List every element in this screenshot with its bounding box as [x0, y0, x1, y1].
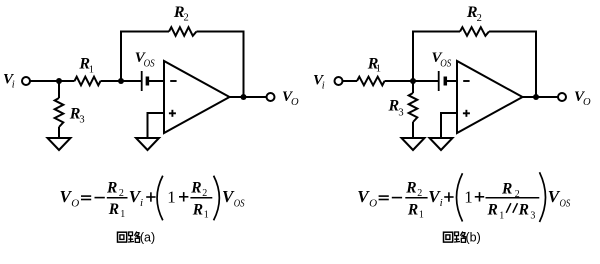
wire battery to op-amp minus (b)	[446, 80, 457, 82]
ground plus input (a)	[136, 138, 159, 150]
output terminal (b)	[558, 93, 566, 101]
formula b fraction R2 over R1 parallel R3	[486, 180, 540, 221]
feedback wire down to output (b)	[535, 32, 537, 98]
svg-text:1: 1	[204, 210, 209, 221]
wire node B down to R3 (b)	[412, 81, 414, 93]
svg-text:1: 1	[499, 210, 504, 221]
formula a V_O	[60, 187, 80, 209]
label R1 (b)	[367, 56, 381, 75]
resistor R1 (a)	[75, 77, 101, 86]
formula b V_i	[428, 187, 442, 209]
label R3 (b)	[388, 98, 404, 119]
output wire (b)	[523, 96, 559, 98]
battery VOS long plate (a)	[141, 71, 143, 91]
label R1 (a)	[78, 55, 94, 75]
label VOS (b)	[432, 50, 452, 70]
resistor R2 (b)	[460, 27, 489, 36]
formula b fraction R2 over R1	[405, 180, 427, 221]
svg-text:OS: OS	[560, 198, 571, 210]
output terminal (a)	[267, 93, 275, 101]
resistor R3 (b)	[409, 93, 418, 122]
svg-text:1: 1	[376, 64, 381, 75]
minus sign (b)	[463, 80, 469, 82]
node B (b)	[410, 78, 416, 84]
wire plus input (a)	[148, 113, 165, 138]
svg-text:2: 2	[515, 189, 520, 200]
feedback top wire left (b)	[412, 31, 460, 33]
label R2 (b)	[466, 4, 482, 24]
svg-text:(a): (a)	[140, 231, 155, 245]
formula a V_i	[129, 187, 143, 209]
label R2 (a)	[173, 4, 189, 24]
label Vo (b)	[574, 89, 591, 108]
formula a fraction R2 over R1 second	[190, 180, 212, 221]
svg-text:R: R	[405, 180, 416, 197]
svg-text:O: O	[291, 97, 299, 108]
formula b plus	[444, 192, 453, 201]
node A (a)	[56, 78, 62, 84]
minus sign (a)	[170, 80, 176, 82]
resistor R3 (a)	[55, 98, 64, 127]
formula a open paren	[157, 176, 163, 221]
feedback top wire right (a)	[197, 31, 245, 33]
label Vo (a)	[282, 89, 299, 108]
plus sign (b)	[463, 110, 470, 117]
svg-text:2: 2	[202, 188, 207, 199]
formula a plus inside paren	[179, 192, 188, 201]
svg-text:(b): (b)	[466, 231, 481, 245]
wire node B to battery (b)	[413, 80, 438, 82]
svg-text:OS: OS	[144, 59, 156, 70]
formula a equals	[81, 196, 91, 199]
svg-text:3: 3	[79, 115, 84, 126]
svg-text:1: 1	[89, 65, 94, 76]
svg-text:3: 3	[530, 210, 535, 221]
svg-text:3: 3	[398, 107, 403, 118]
output node (a)	[241, 94, 247, 100]
caption kanji ro (b)	[454, 232, 466, 243]
svg-text:R: R	[192, 202, 203, 219]
formula a V_OS	[222, 187, 245, 210]
plus sign (a)	[169, 110, 176, 117]
wire plus input (b)	[441, 113, 457, 138]
wire battery to op-amp minus (a)	[149, 80, 164, 82]
resistor R2 (a)	[169, 27, 197, 36]
feedback wire down to output (a)	[243, 32, 245, 98]
battery VOS short plate (b)	[444, 77, 448, 86]
ground R3 (b)	[402, 138, 425, 150]
resistor R1 (b)	[357, 77, 385, 86]
svg-text:1: 1	[464, 188, 473, 207]
svg-text:O: O	[369, 197, 377, 209]
caption kanji ro (a)	[128, 232, 140, 243]
formula b V_O	[357, 187, 377, 209]
svg-text:R: R	[518, 202, 529, 219]
label VOS (a)	[135, 50, 155, 70]
svg-text:O: O	[71, 197, 79, 209]
svg-text:1: 1	[167, 188, 176, 207]
node B (a)	[118, 78, 124, 84]
formula a fraction R2 over R1	[106, 180, 128, 221]
svg-text:R: R	[108, 201, 119, 218]
wire node B up (b)	[412, 32, 414, 82]
svg-text:R: R	[407, 202, 418, 219]
svg-text:2: 2	[184, 13, 189, 24]
op-amp U2 (b)	[457, 61, 523, 133]
formula a close paren	[214, 176, 220, 221]
svg-text:2: 2	[417, 188, 422, 199]
formula b minus	[392, 197, 402, 199]
wire R1 to node B (a)	[101, 80, 122, 82]
svg-text:i: i	[440, 197, 443, 209]
battery VOS short plate (a)	[146, 77, 150, 86]
wire input to R1 (b)	[343, 80, 357, 82]
caption kanji kai (b)	[444, 232, 453, 242]
ground plus input (b)	[430, 138, 453, 150]
battery VOS long plate (b)	[438, 71, 440, 91]
wire node B to battery (a)	[121, 80, 141, 82]
op-amp U1 (a)	[164, 61, 230, 133]
wire input to node A (a)	[31, 80, 60, 82]
svg-text:i: i	[12, 80, 15, 91]
svg-text:1: 1	[120, 209, 125, 220]
formula b plus inside paren	[475, 192, 484, 201]
feedback top wire left (a)	[120, 31, 169, 33]
label Vi (a)	[3, 72, 15, 91]
svg-text:R: R	[501, 180, 512, 197]
feedback top wire right (b)	[489, 31, 537, 33]
svg-text:R: R	[190, 180, 201, 197]
label R3 (a)	[69, 105, 85, 125]
formula b V_OS	[548, 187, 571, 210]
wire node B up (a)	[120, 32, 122, 82]
wire node A to R1 (a)	[59, 80, 75, 82]
label Vi (b)	[313, 73, 325, 92]
svg-text:R: R	[487, 202, 498, 219]
svg-text:1: 1	[419, 210, 424, 221]
formula b close paren	[540, 172, 546, 222]
formula a minus	[95, 197, 105, 199]
wire R1 to node B (b)	[385, 80, 414, 82]
svg-text:O: O	[583, 97, 591, 108]
wire R3 to ground (b)	[412, 122, 414, 138]
ground R3 (a)	[48, 138, 71, 150]
wire node A down to R3 (a)	[58, 81, 60, 98]
svg-text:OS: OS	[234, 198, 245, 210]
svg-text:i: i	[140, 197, 143, 209]
svg-text:2: 2	[119, 188, 124, 199]
output wire (a)	[230, 96, 267, 98]
formula a plus	[146, 192, 155, 201]
output node (b)	[533, 94, 539, 100]
input terminal (b)	[335, 77, 343, 85]
wire R3 to ground (a)	[58, 127, 60, 138]
formula b open paren	[457, 173, 463, 221]
svg-text:2: 2	[477, 13, 482, 24]
svg-text:R: R	[106, 180, 117, 197]
caption kanji kai (a)	[118, 232, 127, 242]
formula b equals	[379, 196, 389, 199]
svg-text:OS: OS	[440, 59, 452, 70]
input terminal (a)	[22, 77, 30, 85]
svg-text:i: i	[322, 81, 325, 92]
